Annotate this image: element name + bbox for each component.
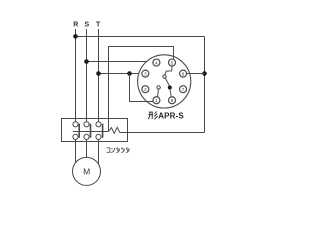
- contact pole 1 terminals: [73, 122, 78, 127]
- contact pole 3 terminals: [96, 122, 101, 127]
- wire T branch to socket pin 3: [99, 73, 139, 75]
- contact pole 1 blade: [78, 124, 80, 138]
- relay pin 8: [169, 97, 176, 104]
- junction dot on T: [96, 71, 101, 76]
- coil zigzag of contactor: [109, 127, 122, 133]
- svg-text:6: 6: [182, 71, 185, 76]
- svg-text:1: 1: [155, 98, 158, 103]
- contact pole 2 terminals: [84, 122, 89, 127]
- wire mechanical link line: [73, 131, 109, 133]
- wire pin 5 loop to coil: [109, 47, 174, 132]
- internal contact point b: [157, 86, 160, 89]
- contact pole 2 blade: [90, 124, 92, 138]
- svg-text:S: S: [84, 22, 89, 29]
- internal wire contact b to pin 1: [157, 89, 160, 97]
- junction dot on S: [84, 59, 89, 64]
- motor wire right: [98, 140, 100, 164]
- relay pin 4: [153, 59, 160, 66]
- internal switch blade: [165, 78, 169, 86]
- wire T feeder vertical: [98, 29, 100, 122]
- wire S feeder vertical: [86, 29, 88, 122]
- internal wire pin 5 to contact: [165, 66, 172, 75]
- wire R branch top horizontal: [76, 36, 205, 38]
- contactor box: [62, 119, 128, 142]
- svg-text:3: 3: [144, 71, 147, 76]
- relay pin 6: [180, 70, 187, 77]
- motor wire center: [86, 140, 88, 158]
- svg-text:5: 5: [171, 60, 174, 65]
- relay pin 2: [142, 86, 149, 93]
- contactor label konakuta: [107, 148, 130, 153]
- svg-text:7: 7: [182, 87, 185, 92]
- relay pin 3: [142, 70, 149, 77]
- junction dot right vertical at pin 6 level: [202, 71, 207, 76]
- motor wire left: [75, 140, 77, 163]
- wire S branch to socket: [87, 61, 147, 63]
- junction dot T branch / pin 1 drop: [127, 71, 132, 76]
- relay pin 1: [153, 97, 160, 104]
- internal contact point a: [163, 75, 166, 78]
- svg-text:4: 4: [155, 60, 158, 65]
- wire R feeder vertical: [75, 29, 77, 122]
- contact pole 3 blade: [102, 124, 104, 138]
- svg-text:8: 8: [171, 98, 174, 103]
- svg-text:R: R: [73, 22, 78, 29]
- internal moving contact dot: [168, 86, 172, 90]
- motor M1 circle: [73, 157, 101, 185]
- junction dot on R: [73, 34, 78, 39]
- svg-text:APR-S: APR-S: [158, 111, 184, 120]
- relay pin 7: [180, 86, 187, 93]
- relay pin 5: [169, 59, 176, 66]
- internal wire dot to pin 8: [170, 89, 171, 97]
- wire pin 6 to right vertical: [187, 73, 205, 75]
- wire coil to right vertical: [122, 132, 205, 134]
- wire right vertical: [204, 37, 206, 133]
- relay label kei APR-S: [148, 112, 158, 120]
- svg-text:2: 2: [144, 87, 147, 92]
- svg-text:T: T: [96, 22, 101, 29]
- svg-text:M: M: [83, 166, 90, 176]
- relay socket U1 outline: [138, 55, 191, 108]
- wire drop to pin 1: [130, 74, 153, 102]
